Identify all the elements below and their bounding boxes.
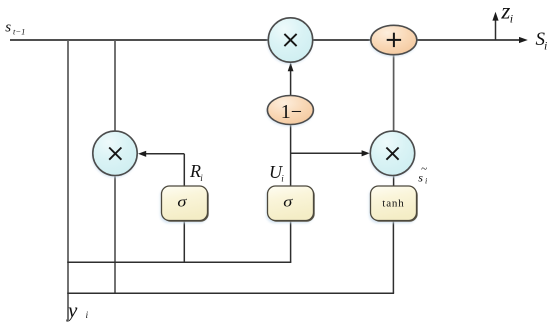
svg-text:R: R [189, 161, 201, 181]
svg-text:i: i [200, 173, 203, 183]
svg-text:i: i [86, 311, 89, 321]
svg-text:σ: σ [283, 193, 293, 210]
svg-text:i: i [281, 173, 284, 183]
svg-text:s: s [418, 171, 423, 185]
svg-text:s: s [5, 20, 11, 36]
svg-text:i: i [544, 39, 547, 53]
svg-text:i: i [425, 177, 427, 186]
svg-text:y: y [66, 298, 78, 322]
svg-text:i: i [510, 12, 513, 26]
svg-text:σ: σ [177, 193, 187, 210]
svg-text:tanh: tanh [382, 197, 404, 209]
svg-text:1−: 1− [281, 101, 302, 123]
svg-text:t−1: t−1 [13, 27, 25, 37]
